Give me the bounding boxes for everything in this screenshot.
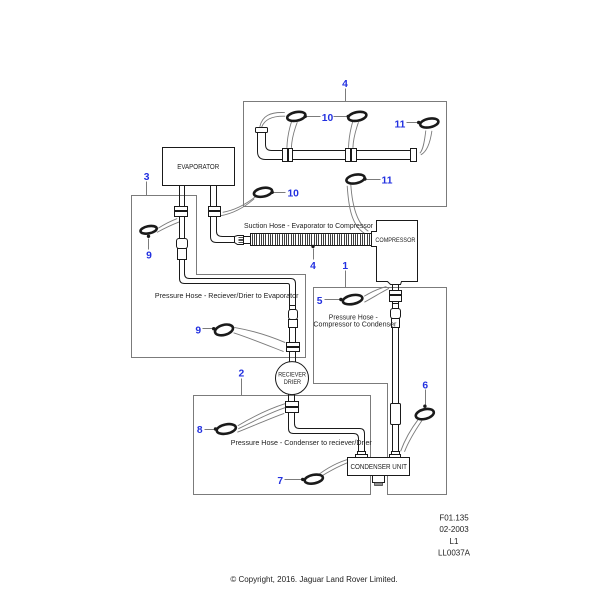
- svg-text:EVAPORATOR: EVAPORATOR: [177, 164, 219, 171]
- svg-text:1: 1: [342, 261, 348, 272]
- svg-text:L1: L1: [450, 537, 459, 546]
- svg-text:11: 11: [394, 119, 405, 130]
- svg-text:Compressor to Condenser: Compressor to Condenser: [313, 322, 397, 329]
- svg-text:9: 9: [146, 250, 152, 261]
- svg-text:RECIEVER: RECIEVER: [278, 372, 306, 379]
- svg-text:3: 3: [144, 172, 150, 183]
- svg-text:4: 4: [342, 79, 348, 90]
- svg-text:4: 4: [310, 261, 316, 272]
- svg-text:10: 10: [287, 188, 299, 199]
- svg-text:Suction Hose - Evaporator to C: Suction Hose - Evaporator to Compressor: [244, 223, 374, 230]
- svg-text:2: 2: [239, 369, 245, 380]
- svg-text:DRIER: DRIER: [284, 379, 302, 386]
- svg-text:Pressure Hose -: Pressure Hose -: [329, 314, 379, 321]
- svg-text:10: 10: [322, 113, 334, 124]
- svg-text:02-2003: 02-2003: [439, 525, 469, 534]
- svg-text:Pressure Hose - Condenser to r: Pressure Hose - Condenser to reciever/Dr…: [231, 440, 373, 447]
- svg-text:Pressure Hose - Reciever/Drier: Pressure Hose - Reciever/Drier to Evapor…: [155, 293, 299, 300]
- svg-text:6: 6: [422, 380, 428, 391]
- svg-text:5: 5: [317, 296, 323, 307]
- svg-text:11: 11: [382, 175, 393, 186]
- svg-text:9: 9: [195, 325, 201, 336]
- svg-text:COMPRESSOR: COMPRESSOR: [375, 238, 416, 244]
- svg-text:F01.135: F01.135: [439, 513, 469, 522]
- svg-text:LL0037A: LL0037A: [438, 549, 471, 558]
- svg-text:8: 8: [197, 425, 203, 436]
- svg-text:7: 7: [277, 476, 283, 487]
- svg-text:© Copyright, 2016. Jaguar Land: © Copyright, 2016. Jaguar Land Rover Lim…: [230, 575, 397, 584]
- svg-text:CONDENSER UNIT: CONDENSER UNIT: [350, 464, 407, 471]
